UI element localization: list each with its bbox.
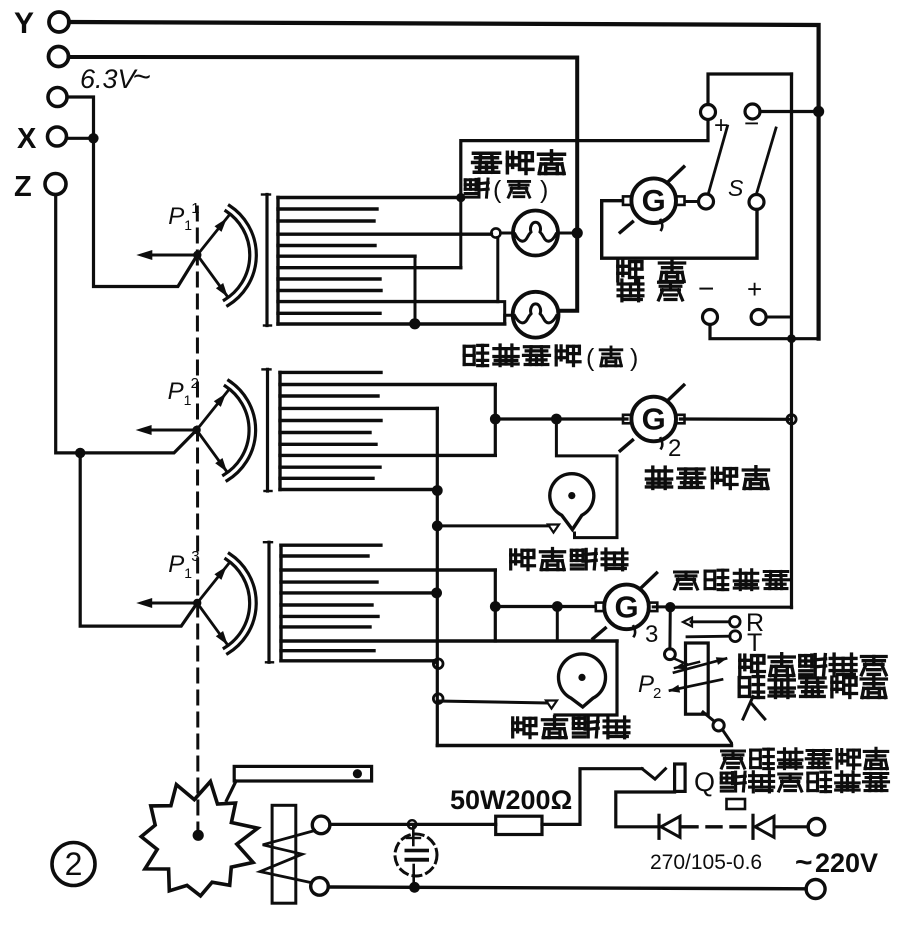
wire bank1 row6 up-link — [459, 198, 462, 268]
wire left rail to P1-3 — [80, 453, 197, 626]
terminal - lower — [698, 273, 718, 325]
label M3 number 3 — [645, 621, 658, 648]
cam contact terminal upper — [312, 816, 330, 834]
rotary switch P1-1 — [136, 200, 256, 306]
contact bank 3 (P1-3 wafer contacts) — [264, 542, 617, 662]
junction Z rail split — [75, 448, 85, 458]
cam contact springs — [260, 831, 315, 883]
svg-text:2: 2 — [668, 435, 681, 462]
label 270/105-0.6 — [650, 851, 762, 874]
wire reset2 fixed contact — [438, 701, 547, 703]
motor M3 (volume) — [593, 573, 657, 639]
wire M1 left loop — [602, 201, 757, 259]
svg-text:): ) — [630, 344, 638, 372]
contact S lower-right — [749, 195, 764, 210]
terminal R — [730, 609, 765, 637]
wire X to feeder — [67, 137, 94, 140]
label 50W200Ω — [450, 785, 572, 815]
junction lamp1 right — [572, 227, 583, 238]
node spine/bank3 bottom (circle) — [433, 659, 443, 669]
svg-text:G: G — [642, 402, 666, 437]
svg-text:1: 1 — [184, 392, 192, 408]
junction bank3 U to motor3 — [490, 601, 501, 612]
wire bottom bus (reset/jack common) — [437, 744, 731, 747]
contact + upper — [701, 105, 729, 140]
junction X-feeder — [88, 133, 98, 143]
wire lamp1 left lead — [501, 232, 514, 235]
lamp L1 radio indicator (green) — [513, 211, 558, 256]
label Q — [694, 767, 715, 797]
jack Q spring contact — [642, 769, 666, 779]
wire heater top bus — [330, 823, 496, 826]
rotary switch P1-2 — [136, 375, 256, 481]
svg-text:P: P — [168, 378, 184, 405]
svg-text:+: + — [747, 274, 762, 304]
mechanical link (dashed) — [196, 207, 200, 831]
svg-text:G: G — [642, 183, 666, 218]
wire bank1 row5 down-link — [414, 256, 417, 324]
wire lamp1 right lead — [558, 232, 577, 235]
wire + lower to right chain — [766, 316, 791, 319]
node spine/reset2 wire (circle) — [433, 694, 443, 704]
switch S arm 2 — [757, 128, 777, 194]
wire reset2 box right — [555, 641, 617, 715]
junction M3 right split — [665, 602, 675, 612]
switch S frame top — [708, 74, 792, 105]
label 空档指示(红) — [464, 344, 638, 372]
contact bank 1 (P1-1 wafer contacts) — [262, 195, 505, 326]
svg-text:): ) — [540, 176, 548, 204]
contact R (triangle) — [683, 618, 692, 627]
motor M2 (tone quality) — [620, 385, 684, 451]
junction bank1 bottom — [409, 318, 420, 329]
potentiometer P2 body — [686, 643, 709, 714]
cam contact terminal lower — [311, 878, 329, 896]
svg-text:50W200Ω: 50W200Ω — [450, 785, 572, 815]
label P2 — [638, 671, 661, 702]
svg-text:2: 2 — [653, 685, 661, 702]
svg-text:2: 2 — [65, 846, 83, 882]
svg-text:P: P — [168, 203, 184, 230]
wire 6.3V feeder to P1-1 — [67, 97, 197, 287]
node lamp1 left (small circle) — [491, 228, 500, 237]
P2 wiper arrows — [669, 657, 728, 692]
motor M1 (tuning) — [620, 167, 684, 233]
ratchet wheel — [141, 782, 258, 896]
terminal Z — [14, 171, 66, 203]
svg-text:(: ( — [586, 344, 595, 372]
label 音质马达 — [646, 467, 768, 489]
wire T lead — [687, 635, 730, 638]
label 相线控制,音(line1) — [722, 748, 888, 768]
wire bank1 top to switch S (+) — [461, 121, 708, 198]
label 音量马达 — [675, 570, 789, 590]
node P2 bottom (circle) — [713, 720, 724, 731]
terminal T — [730, 629, 762, 657]
wire M1 right to S — [686, 200, 699, 203]
junction spine/bank3 row — [431, 588, 442, 599]
label 调谐马达 — [618, 260, 685, 301]
label 收音指示(绿) — [465, 151, 564, 204]
wire S(+) to lower + terminal — [790, 74, 793, 339]
terminal (second, 6.3V pair) — [49, 47, 69, 67]
wire P2 bottom to bottom bus — [723, 730, 732, 746]
svg-text:~: ~ — [795, 846, 813, 879]
wire spine vertical — [436, 408, 439, 745]
wire Z left rail — [56, 195, 197, 453]
svg-text:Y: Y — [14, 7, 34, 40]
wire to motor M3 left — [495, 605, 593, 608]
jack Q body — [675, 764, 686, 791]
svg-text:6.3V: 6.3V — [80, 64, 139, 94]
terminal X — [17, 123, 67, 155]
cam follower body — [272, 805, 296, 903]
terminal AC line — [808, 819, 825, 836]
wire second top rail to lamps — [69, 57, 578, 311]
reset switch 1 (复位开关) — [550, 474, 594, 530]
svg-text:220V: 220V — [815, 848, 878, 878]
wire right chain down to motors — [790, 339, 793, 608]
svg-text:P: P — [168, 551, 184, 578]
pawl arm — [227, 766, 372, 800]
wire M2 right — [680, 417, 791, 420]
wire P2 bottom lead — [703, 712, 715, 722]
wire bank3 U-link — [494, 570, 497, 641]
svg-text:270/105-0.6: 270/105-0.6 — [650, 851, 762, 874]
wire bank2 U-link — [494, 385, 497, 456]
junction right chain on bottom wire — [787, 334, 796, 343]
neon lamp (dashed circle) — [395, 834, 437, 876]
wire motor3 junction down to P2 top — [668, 607, 671, 649]
svg-text:−: − — [744, 108, 759, 138]
label M2 number 2 — [668, 435, 681, 462]
switch S arm 1 — [708, 126, 727, 194]
svg-text:−: − — [698, 273, 714, 304]
neon lamp leads — [407, 824, 420, 887]
svg-text:Q: Q — [694, 767, 715, 797]
rotary switch P1-3 — [136, 548, 256, 654]
wire bank1 row9 to lamp2 — [498, 238, 505, 325]
node P2 top (circle) — [665, 649, 676, 660]
wire reset1 to motor2 feed — [556, 419, 617, 538]
svg-text:Z: Z — [14, 171, 32, 203]
wire - lower to Y rail — [710, 325, 819, 339]
junction motor3 feed split — [552, 601, 563, 612]
junction motor2 feed split — [551, 414, 562, 425]
label S — [728, 175, 744, 201]
node M2 right junction (circle) — [787, 415, 796, 424]
wire bank3 bottom to spine circle — [434, 661, 436, 663]
figure number 2 — [52, 843, 95, 886]
junction spine/bank2 bottom — [432, 485, 443, 496]
contact S lower-left — [699, 194, 714, 209]
junction bank2 U to motor2 — [490, 414, 501, 425]
ratchet pivot dot — [193, 830, 204, 841]
contact reset1 fixed (triangle) — [548, 525, 559, 533]
contact reset2 fixed (triangle) — [546, 701, 557, 709]
wire resistor to jack — [542, 769, 642, 825]
junction bank1 top frame — [456, 193, 465, 202]
svg-text:G: G — [614, 589, 638, 624]
junction Y rail / - — [813, 106, 824, 117]
label 接收音机功率放大级输入 — [739, 654, 886, 719]
contact - upper — [744, 104, 760, 138]
svg-text:P: P — [638, 671, 654, 698]
wire reset1 fixed contact — [437, 524, 549, 527]
wire upper - to Y rail — [760, 110, 819, 113]
wire jack sleeve to diodes — [616, 792, 675, 827]
wire D2 to AC terminal — [776, 825, 808, 828]
terminal 6.3V — [48, 59, 151, 107]
label 复位开关 (lower) — [513, 717, 629, 738]
wire lamp2 left jog — [505, 315, 513, 324]
diode D1 — [659, 815, 680, 838]
diode D2 — [753, 815, 774, 838]
lamp L2 neutral indicator (red) — [513, 292, 559, 338]
wire Y top rail — [69, 22, 819, 339]
contact bank 2 (P1-2 wafer contacts) — [263, 369, 496, 491]
junction neon bottom — [409, 882, 420, 893]
terminal AC neutral — [806, 880, 825, 899]
label 口(line3) — [727, 799, 746, 809]
svg-text:1: 1 — [184, 565, 192, 581]
junction spine/reset1 wire — [432, 521, 443, 532]
svg-text:T: T — [747, 629, 762, 657]
wire to motor M2 left — [495, 417, 627, 420]
label 复位开关 (upper) — [511, 549, 627, 570]
wire R lead — [691, 620, 730, 623]
reset switch 2 (复位开关) — [559, 654, 606, 707]
wire M3 right to chain — [670, 606, 791, 609]
terminal Y — [14, 7, 69, 40]
label ~220V — [795, 846, 878, 879]
wire M3 right — [653, 605, 670, 608]
resistor 50W200 — [496, 816, 542, 834]
label 频声源控制插(line2) — [721, 772, 888, 792]
wire heater bottom bus — [328, 887, 806, 889]
wire D1-D2 (dashed) — [683, 825, 748, 828]
svg-text:3: 3 — [645, 621, 658, 648]
svg-text:~: ~ — [133, 59, 151, 94]
terminal + lower — [747, 274, 766, 325]
svg-text:S: S — [728, 175, 744, 201]
wire motor3 split down to reset2 box — [556, 607, 559, 642]
svg-text:X: X — [17, 123, 37, 155]
node neon top (circle) — [408, 820, 416, 828]
svg-text:1: 1 — [184, 217, 192, 233]
svg-text:(: ( — [493, 176, 502, 204]
